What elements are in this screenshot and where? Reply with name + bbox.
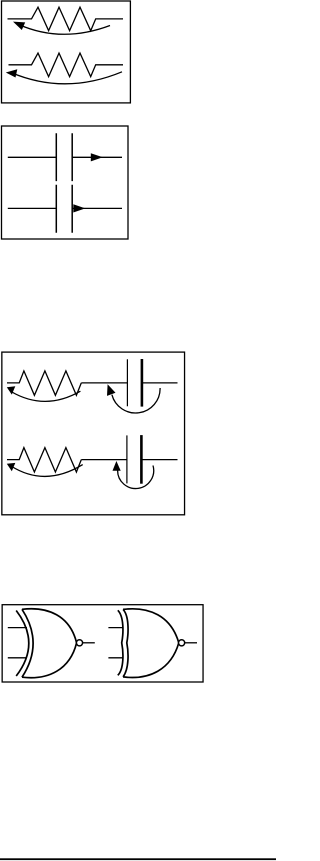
- arrow arc of C4: [113, 461, 154, 489]
- xnor gate U2 bubble: [179, 640, 185, 646]
- arrow arc of R2: [6, 69, 122, 84]
- xnor gate U1 output wire: [83, 642, 95, 644]
- resistor R2: [9, 53, 124, 77]
- capacitor C1: [8, 133, 122, 181]
- arrow arc of C3: [107, 384, 160, 413]
- xnor gate U2 body: [118, 609, 179, 678]
- arrow arc of R1: [13, 22, 110, 35]
- wire R4 to C4: [81, 459, 127, 461]
- arrow of C2: [73, 204, 85, 212]
- resistor R3: [7, 371, 81, 395]
- variable capacitor C4: [127, 435, 178, 484]
- arrow arc of R4: [7, 463, 83, 477]
- wire R3 to C3: [81, 382, 127, 384]
- xnor gate U1 input wires: [8, 628, 27, 658]
- variable capacitor C3: [127, 359, 177, 407]
- xnor gate U2 output wire: [185, 642, 197, 644]
- arrow of C1: [91, 153, 103, 161]
- arrow arc of R3: [7, 386, 81, 401]
- page bottom rule: [0, 858, 276, 860]
- xnor gate U1 body: [16, 609, 76, 678]
- xnor gate U1 bubble: [76, 640, 82, 646]
- capacitor C2: [8, 185, 122, 233]
- resistor R1: [8, 7, 124, 31]
- xnor gate U2 input wires: [108, 628, 122, 658]
- resistor R4: [7, 448, 81, 472]
